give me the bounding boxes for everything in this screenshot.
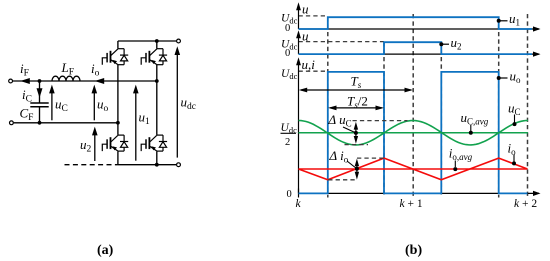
dimension delta uC dashed min level	[345, 144, 369, 146]
voltage arrow uC	[51, 91, 53, 120]
gridline dashed at u1 fall	[498, 17, 500, 197]
svg-text:k: k	[296, 198, 302, 210]
wire bottom-left rail	[14, 122, 118, 124]
node junction left-leg to CF rail	[116, 121, 120, 125]
gridline dashed at k+2	[527, 14, 529, 198]
gridline dashed at u1 rise	[327, 17, 329, 197]
wire right leg	[156, 41, 158, 49]
curve io,avg red line	[299, 168, 528, 170]
curve uC,avg green line	[299, 132, 529, 134]
inductor LF	[52, 76, 80, 81]
svg-text:0: 0	[285, 48, 290, 59]
voltage arrow uo	[93, 91, 95, 120]
tick k	[298, 189, 300, 198]
curve uo blue	[299, 72, 528, 193]
svg-text:u,i: u,i	[302, 57, 316, 72]
IGBT Q4 bottom-right	[141, 135, 167, 151]
dimension Ts arrow	[301, 89, 411, 91]
IGBT Q3 bottom-left	[102, 135, 128, 151]
current arrow iC	[37, 88, 43, 98]
node junction capacitor top	[38, 79, 42, 83]
dimension Ts/2 arrow	[330, 107, 382, 109]
plot2 y-axis u	[298, 37, 300, 54]
terminal bottom-left	[10, 121, 14, 125]
node junction top rail	[155, 39, 159, 43]
wire mid output	[13, 80, 157, 82]
plot3 y-axis u,i	[298, 64, 300, 193]
node junction right-leg output	[155, 79, 159, 83]
svg-text:k + 1: k + 1	[400, 198, 423, 210]
plot3 Udc dashed level	[299, 70, 328, 72]
dimension delta uC arrows	[355, 125, 357, 140]
wire top rail	[118, 40, 176, 42]
curve uC green sine	[299, 121, 529, 145]
IGBT Q2 top-right	[141, 49, 167, 65]
gridline dashed at u2 rise	[383, 42, 385, 197]
curve u1 blue	[299, 17, 533, 29]
svg-text:0: 0	[287, 189, 292, 200]
label u2 with leader	[439, 42, 443, 46]
svg-text:(b): (b)	[405, 243, 422, 258]
plot2 Udc dashed level	[299, 41, 385, 43]
svg-text:u: u	[302, 1, 309, 16]
wire bottom rail	[118, 164, 176, 166]
dimension delta io dashed min level	[328, 179, 357, 181]
plot1 Udc dashed level	[299, 15, 328, 17]
IGBT Q1 top-left	[102, 49, 128, 65]
dimension delta uC dashed max level	[353, 120, 408, 122]
dimension delta io dashed max level	[357, 157, 385, 159]
terminal top-right	[177, 39, 181, 43]
voltage arrow udc	[176, 53, 178, 158]
svg-text:u: u	[302, 28, 309, 43]
leader delta io	[347, 161, 357, 169]
svg-text:2: 2	[285, 137, 290, 148]
node junction bottom rail	[155, 163, 159, 167]
node junction capacitor bottom	[38, 121, 42, 125]
current arrow iF	[20, 78, 30, 84]
plot2 zero line with arrow	[299, 53, 540, 55]
wire bottom rail dashed stub	[65, 164, 118, 166]
label u1 with leader	[497, 19, 501, 23]
plot3 x-axis k with arrow	[299, 192, 540, 194]
gridline dashed at u2 fall	[440, 42, 442, 197]
leader delta uC	[343, 127, 356, 133]
gridline dashed at k+1	[412, 14, 414, 198]
curve u2 blue	[299, 42, 533, 54]
plot1 y-axis u	[298, 9, 300, 29]
svg-text:0: 0	[285, 23, 290, 34]
terminal bottom-right	[177, 163, 181, 167]
svg-text:Ts/2: Ts/2	[347, 93, 368, 110]
svg-text:(a): (a)	[97, 243, 114, 258]
label uo with leader	[497, 76, 501, 80]
dimension delta io arrows	[356, 162, 358, 176]
capacitor branch wires	[39, 81, 41, 103]
curve io red triangle	[299, 158, 528, 180]
capacitor CF plates	[30, 103, 48, 107]
plot1 zero line with arrow	[299, 28, 540, 30]
wire left leg	[117, 41, 119, 49]
voltage arrow u1	[135, 91, 137, 161]
terminal top-left	[9, 79, 13, 83]
svg-text:k + 2: k + 2	[514, 198, 537, 210]
current arrow io	[95, 78, 105, 84]
voltage arrow u2	[94, 133, 96, 161]
